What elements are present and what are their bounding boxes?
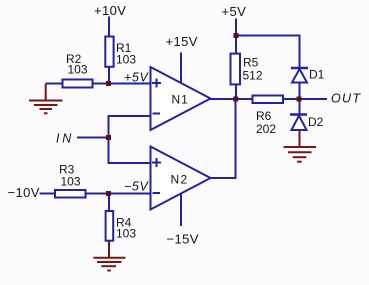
svg-text:+15V: +15V [166,34,198,49]
svg-text:103: 103 [68,63,88,77]
wire ground G1 to R2 left [46,83,62,85]
wire ground stem at G1 [45,84,47,101]
op-amp U2 body triangle N2 [151,147,211,210]
wire vertical through node B [108,116,110,163]
svg-text:R5: R5 [243,56,259,70]
wire R5 bottom to node E [235,85,237,99]
wire IN stub to node B [77,137,109,139]
wire +5V rail to diode branch [235,35,301,37]
op-amp N2 inverting input - mark [153,192,161,194]
svg-text:D2: D2 [308,115,324,129]
resistor R3 [55,190,86,198]
svg-text:103: 103 [116,53,136,67]
wire D1 anode to node F [299,83,301,99]
wire R6 right through node F to OUT [283,98,327,100]
svg-text:−15V: −15V [167,232,199,247]
node A junction R1/R2/N1+ [106,81,111,86]
svg-text:−5V: −5V [124,180,149,194]
ground G1 [29,101,63,114]
svg-text:512: 512 [243,69,263,83]
diode D2 cathode bar [290,113,307,116]
svg-text:OUT: OUT [331,92,361,106]
wire R1 bottom to node A [108,67,110,84]
svg-text:N2: N2 [171,173,189,187]
op-amp N1 inverting input - mark [153,113,161,115]
svg-text:−10V: −10V [8,185,40,200]
wire R2 right through node A to N1 + input [93,83,150,85]
wire node B up-branch to N1 - input [108,115,151,117]
wire N1 output through node E to R6 left [210,98,252,100]
wire rail down to D1 cathode [299,35,301,69]
svg-text:+10V: +10V [94,3,126,18]
svg-text:103: 103 [61,175,81,189]
resistor R2 [63,80,93,88]
wire node C to R4 top [108,194,110,211]
wire +5V down through node D to R5 top [235,19,237,55]
node E junction N1out/R5/R6 [233,97,238,102]
wire +10V to R1 top [108,17,110,37]
wire node F down to D2 cathode [299,99,301,115]
wire N2 output [210,177,237,179]
svg-text:+5V: +5V [124,71,149,85]
node F junction R6/D1/D2/OUT [297,97,302,102]
svg-text:+5V: +5V [222,4,247,19]
diode D2 anode triangle [292,116,307,131]
ground G3 [284,147,317,162]
ground G2 [93,258,125,271]
wire +15V pin of N1 [180,53,182,83]
resistor R1 [105,37,113,67]
resistor R6 [253,96,284,104]
node B junction IN [106,135,111,140]
svg-text:IN: IN [56,132,74,146]
wire node E down to N2 output level [235,99,237,179]
wire ground stem R4 to G2 [108,242,110,258]
svg-text:103: 103 [116,227,136,241]
op-amp N2 noninverting input + mark [152,158,161,167]
node D junction +5V/R5 [234,33,239,38]
svg-text:D1: D1 [309,68,325,82]
diode D1 cathode bar [291,67,308,70]
wire -15V pin of N2 [180,194,182,227]
svg-text:N1: N1 [172,93,189,107]
wire R3 right through node C to N2 - input [86,193,150,195]
wire ground stem D2 anode to G3 [299,131,301,147]
svg-text:R6: R6 [256,109,272,123]
wire -10V to R3 left [40,193,56,195]
node C junction R3/R4/N2- [106,191,111,196]
wire node B down-branch to N2 + input [108,162,151,164]
resistor R4 [106,211,114,241]
diode D1 anode triangle [292,69,307,83]
op-amp N1 noninverting input + mark [152,79,161,88]
op-amp U1 body triangle N1 [151,67,211,130]
resistor R5 [231,54,241,85]
svg-text:202: 202 [256,122,276,136]
